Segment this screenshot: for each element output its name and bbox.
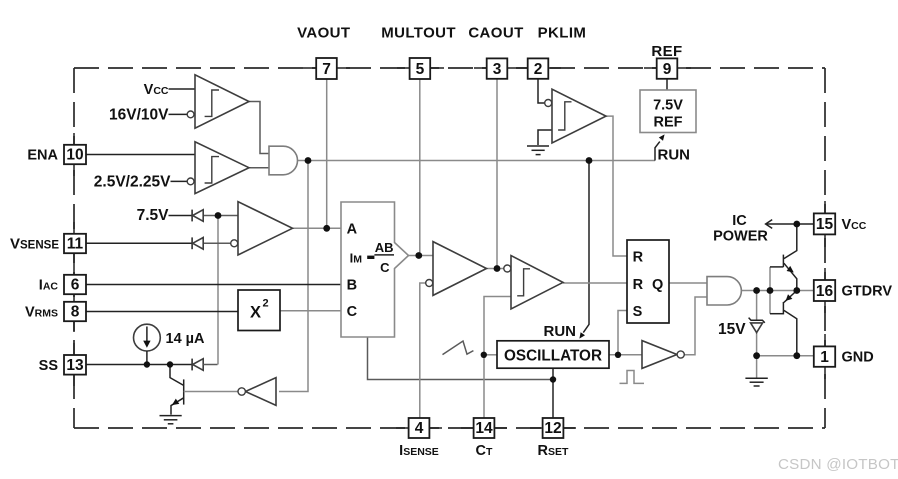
svg-text:3: 3 [493, 61, 502, 78]
transistor Q2 PNP lower [782, 302, 784, 314]
svg-text:14: 14 [475, 420, 493, 437]
svg-text:16: 16 [816, 283, 834, 300]
junction RUN to oscillator tap [586, 157, 593, 164]
wire UVLO output to AND gate [249, 102, 269, 154]
AND gate U11 output driver [707, 277, 741, 305]
svg-text:CT: CT [476, 443, 493, 459]
svg-text:RUN: RUN [658, 147, 691, 164]
wire zener bottom [756, 333, 758, 356]
op-amp U4 voltage amplifier [238, 202, 293, 255]
wire 2.5V/2.25V threshold stub [171, 180, 188, 182]
svg-text:9: 9 [663, 61, 672, 78]
svg-text:14 µA: 14 µA [166, 331, 206, 347]
wire oscillator bottom to RSET pin 12 [552, 368, 554, 418]
svg-text:VCC: VCC [842, 217, 867, 233]
wire clamp node down to SS diode [217, 216, 219, 365]
pin 14 [474, 418, 495, 438]
current source I1 14uA [134, 324, 161, 351]
wire GND rail to ground symbol [756, 356, 758, 378]
junction zener node [753, 287, 760, 294]
svg-text:X: X [250, 304, 261, 322]
junction collector ground node [793, 352, 800, 359]
wire 7.5V reference stub [169, 215, 193, 217]
pin 1 [814, 346, 835, 366]
svg-text:POWER: POWER [713, 228, 768, 244]
dashed IC boundary top [74, 67, 825, 69]
junction IC POWER node [793, 221, 800, 228]
pin 11 [64, 234, 86, 253]
wire pin 9 to 7.5V REF block [666, 79, 668, 90]
junction CAOUT pin 3 node [494, 265, 501, 272]
svg-text:CSDN @IOTBOT: CSDN @IOTBOT [778, 456, 898, 473]
junction CT ramp node [481, 352, 487, 358]
comparator U2 ENA [195, 142, 249, 194]
junction SS discharge node [167, 361, 173, 367]
dashed IC boundary right [824, 68, 826, 428]
wire driver AND to GTDRV rail [741, 290, 814, 292]
diode D1 7.5V clamp [191, 210, 193, 222]
junction RUN node [305, 157, 312, 164]
junction emitter GTDRV node [793, 287, 800, 294]
pin 6 [64, 275, 86, 294]
flip-flop U9 RS latch [627, 240, 669, 323]
pin 15 [814, 213, 835, 234]
wire ENA pin 10 to comparator [86, 154, 195, 156]
inverter U12 soft-start reset [245, 378, 276, 406]
junction zener ground node [753, 352, 760, 359]
junction multiplier output node [415, 252, 422, 259]
svg-text:A: A [347, 222, 358, 238]
wire 16V/10V threshold stub [169, 113, 188, 115]
wire pin 7 stub down [326, 79, 328, 228]
pin 4 [409, 418, 430, 438]
comparator U1 UVLO [195, 75, 249, 128]
svg-text:C: C [347, 304, 358, 320]
pin 7 [316, 58, 337, 79]
wire RUN down to soft-start inverter [279, 161, 308, 392]
wire AND output stub [298, 160, 309, 162]
svg-text:RUN: RUN [544, 323, 577, 340]
diode D2 VSENSE [191, 237, 193, 249]
op-amp U6 current amplifier [433, 242, 487, 296]
wire VRMS pin 8 to squarer [86, 311, 238, 313]
svg-text:16V/10V: 16V/10V [109, 107, 169, 124]
wire multiplier Iset to RSET node [368, 337, 554, 380]
zener D3 15V [749, 318, 765, 323]
pin 13 [64, 355, 86, 375]
comparator U8 PKLIM [552, 89, 606, 143]
svg-text:7: 7 [322, 61, 331, 78]
wire pin 5 MULTOUT stub down [419, 79, 421, 256]
junction VA reference clamp node [215, 212, 222, 219]
wire current amp output [487, 268, 504, 270]
wire inverter to Q3 base [184, 391, 238, 393]
transistor Q1 NPN upper [782, 255, 784, 267]
svg-text:12: 12 [544, 420, 561, 437]
svg-text:11: 11 [67, 236, 84, 253]
arrowhead RUN to oscillator [579, 332, 585, 338]
svg-text:AB: AB [375, 240, 394, 255]
wire RUN riser to 7.5V REF [655, 142, 660, 161]
wire RUN drop to oscillator [583, 161, 589, 333]
svg-text:15: 15 [816, 216, 834, 233]
wire solid stubs at boundary pins [303, 67, 350, 69]
arrowhead IC POWER [766, 220, 773, 229]
transistor Q3 soft-start discharge [170, 365, 184, 386]
svg-text:10: 10 [66, 147, 83, 164]
wire CT node to oscillator [484, 354, 497, 356]
junction oscillator output node [615, 352, 621, 358]
svg-text:2: 2 [534, 61, 543, 78]
wire ENA comparator to AND gate [249, 167, 269, 169]
svg-text:4: 4 [415, 420, 424, 437]
wire latch S input [618, 311, 627, 355]
wire ramp to PWM comparator [484, 297, 511, 419]
svg-text:13: 13 [66, 357, 84, 374]
svg-text:S: S [633, 304, 643, 320]
svg-text:15V: 15V [718, 321, 746, 338]
wire ISENSE pin 4 to current amp inverting input [420, 283, 426, 418]
sawtooth waveform symbol [443, 341, 474, 355]
wire IAC pin 6 to multiplier B [86, 284, 341, 286]
wire diode D2 to inverting input [203, 242, 231, 244]
svg-text:B: B [347, 277, 357, 293]
svg-text:VRMS: VRMS [25, 305, 58, 321]
svg-text:7.5V: 7.5V [653, 98, 683, 114]
wire zener top [756, 291, 758, 321]
wire GND rail [757, 355, 814, 357]
ground soft start [160, 415, 182, 417]
wire squarer to multiplier C [280, 310, 341, 312]
wire PKLIM output to latch top R [606, 116, 627, 256]
squarer X^2 [238, 290, 280, 331]
wire RUN bus [308, 160, 655, 162]
AND gate U3 enable [269, 146, 298, 175]
inverter U10 oscillator [642, 341, 677, 369]
wire latch Q to driver AND [669, 282, 707, 284]
svg-text:PKLIM: PKLIM [538, 24, 587, 41]
svg-text:2.5V/2.25V: 2.5V/2.25V [94, 174, 171, 191]
svg-text:SS: SS [39, 358, 59, 374]
svg-text:1: 1 [820, 349, 829, 366]
svg-text:ENA: ENA [27, 148, 58, 164]
pulse waveform symbol [620, 371, 645, 384]
wire lower base stub [770, 313, 783, 315]
svg-text:GND: GND [842, 350, 874, 366]
wire base driver rail [769, 267, 771, 314]
pin 10 [64, 145, 86, 164]
wire VCC pin 15 to IC POWER [766, 223, 814, 225]
oscillator block [497, 341, 609, 368]
pin 3 [487, 58, 508, 78]
wire diode D1 to voltage amp input [203, 215, 238, 217]
svg-text:2: 2 [263, 298, 269, 310]
svg-text:GTDRV: GTDRV [842, 284, 893, 300]
svg-text:MULTOUT: MULTOUT [381, 24, 456, 41]
diode D4 soft start [191, 359, 193, 371]
pin 12 [543, 418, 564, 438]
junction SS current source node [144, 361, 150, 367]
dashed IC boundary bottom [74, 427, 825, 429]
junction VAOUT pin 7 node [323, 225, 330, 232]
svg-text:5: 5 [416, 61, 425, 78]
svg-text:VAOUT: VAOUT [297, 24, 350, 41]
pin 5 [410, 58, 431, 79]
dashed IC boundary left [73, 68, 75, 428]
svg-text:OSCILLATOR: OSCILLATOR [504, 347, 602, 364]
wire PWM output to latch R [563, 282, 627, 284]
pin 8 [64, 302, 86, 321]
7.5V REF block [640, 90, 696, 133]
ground PKLIM input [527, 145, 549, 147]
wire oscillator to inverter [609, 354, 642, 356]
svg-text:REF: REF [654, 115, 683, 131]
svg-text:7.5V: 7.5V [137, 207, 170, 224]
wire SS rail pin 13 [86, 364, 192, 366]
pin 16 [814, 280, 835, 301]
svg-text:RSET: RSET [538, 443, 569, 459]
ground output stage [745, 377, 767, 379]
wire pin 2 to PKLIM comparator [538, 79, 545, 103]
svg-text:C: C [380, 260, 390, 275]
svg-text:Q: Q [652, 277, 663, 293]
pin 2 [528, 58, 549, 78]
wire inverter to driver AND [685, 297, 708, 355]
arrowhead RUN to REF [659, 134, 665, 140]
wire multiplier output to current amp [409, 255, 434, 257]
wire VAOUT net [293, 227, 342, 229]
svg-text:ISENSE: ISENSE [399, 443, 439, 459]
junction RSET node [550, 376, 556, 382]
wire SS diode to clamp node [203, 364, 217, 366]
svg-text:6: 6 [71, 277, 80, 294]
wire VSENSE pin 11 to diode D2 [86, 242, 192, 244]
junction base driver node [767, 287, 774, 294]
svg-text:VCC: VCC [144, 82, 169, 98]
svg-text:IC: IC [732, 213, 747, 229]
comparator U7 PWM [511, 256, 563, 309]
svg-text:8: 8 [71, 304, 80, 321]
wire VCC to UVLO comparator [169, 88, 196, 90]
svg-text:R: R [633, 249, 644, 265]
multiplier U5 [341, 202, 409, 337]
wire PKLIM ground input [538, 130, 552, 145]
svg-text:IAC: IAC [39, 278, 59, 294]
svg-text:CAOUT: CAOUT [468, 24, 523, 41]
wire pin 3 CAOUT stub down [496, 79, 498, 269]
svg-text:REF: REF [651, 43, 682, 60]
svg-text:IM: IM [350, 250, 363, 265]
wire upper base stub [770, 266, 783, 268]
svg-text:R: R [633, 277, 644, 293]
pin 9 [657, 58, 678, 78]
